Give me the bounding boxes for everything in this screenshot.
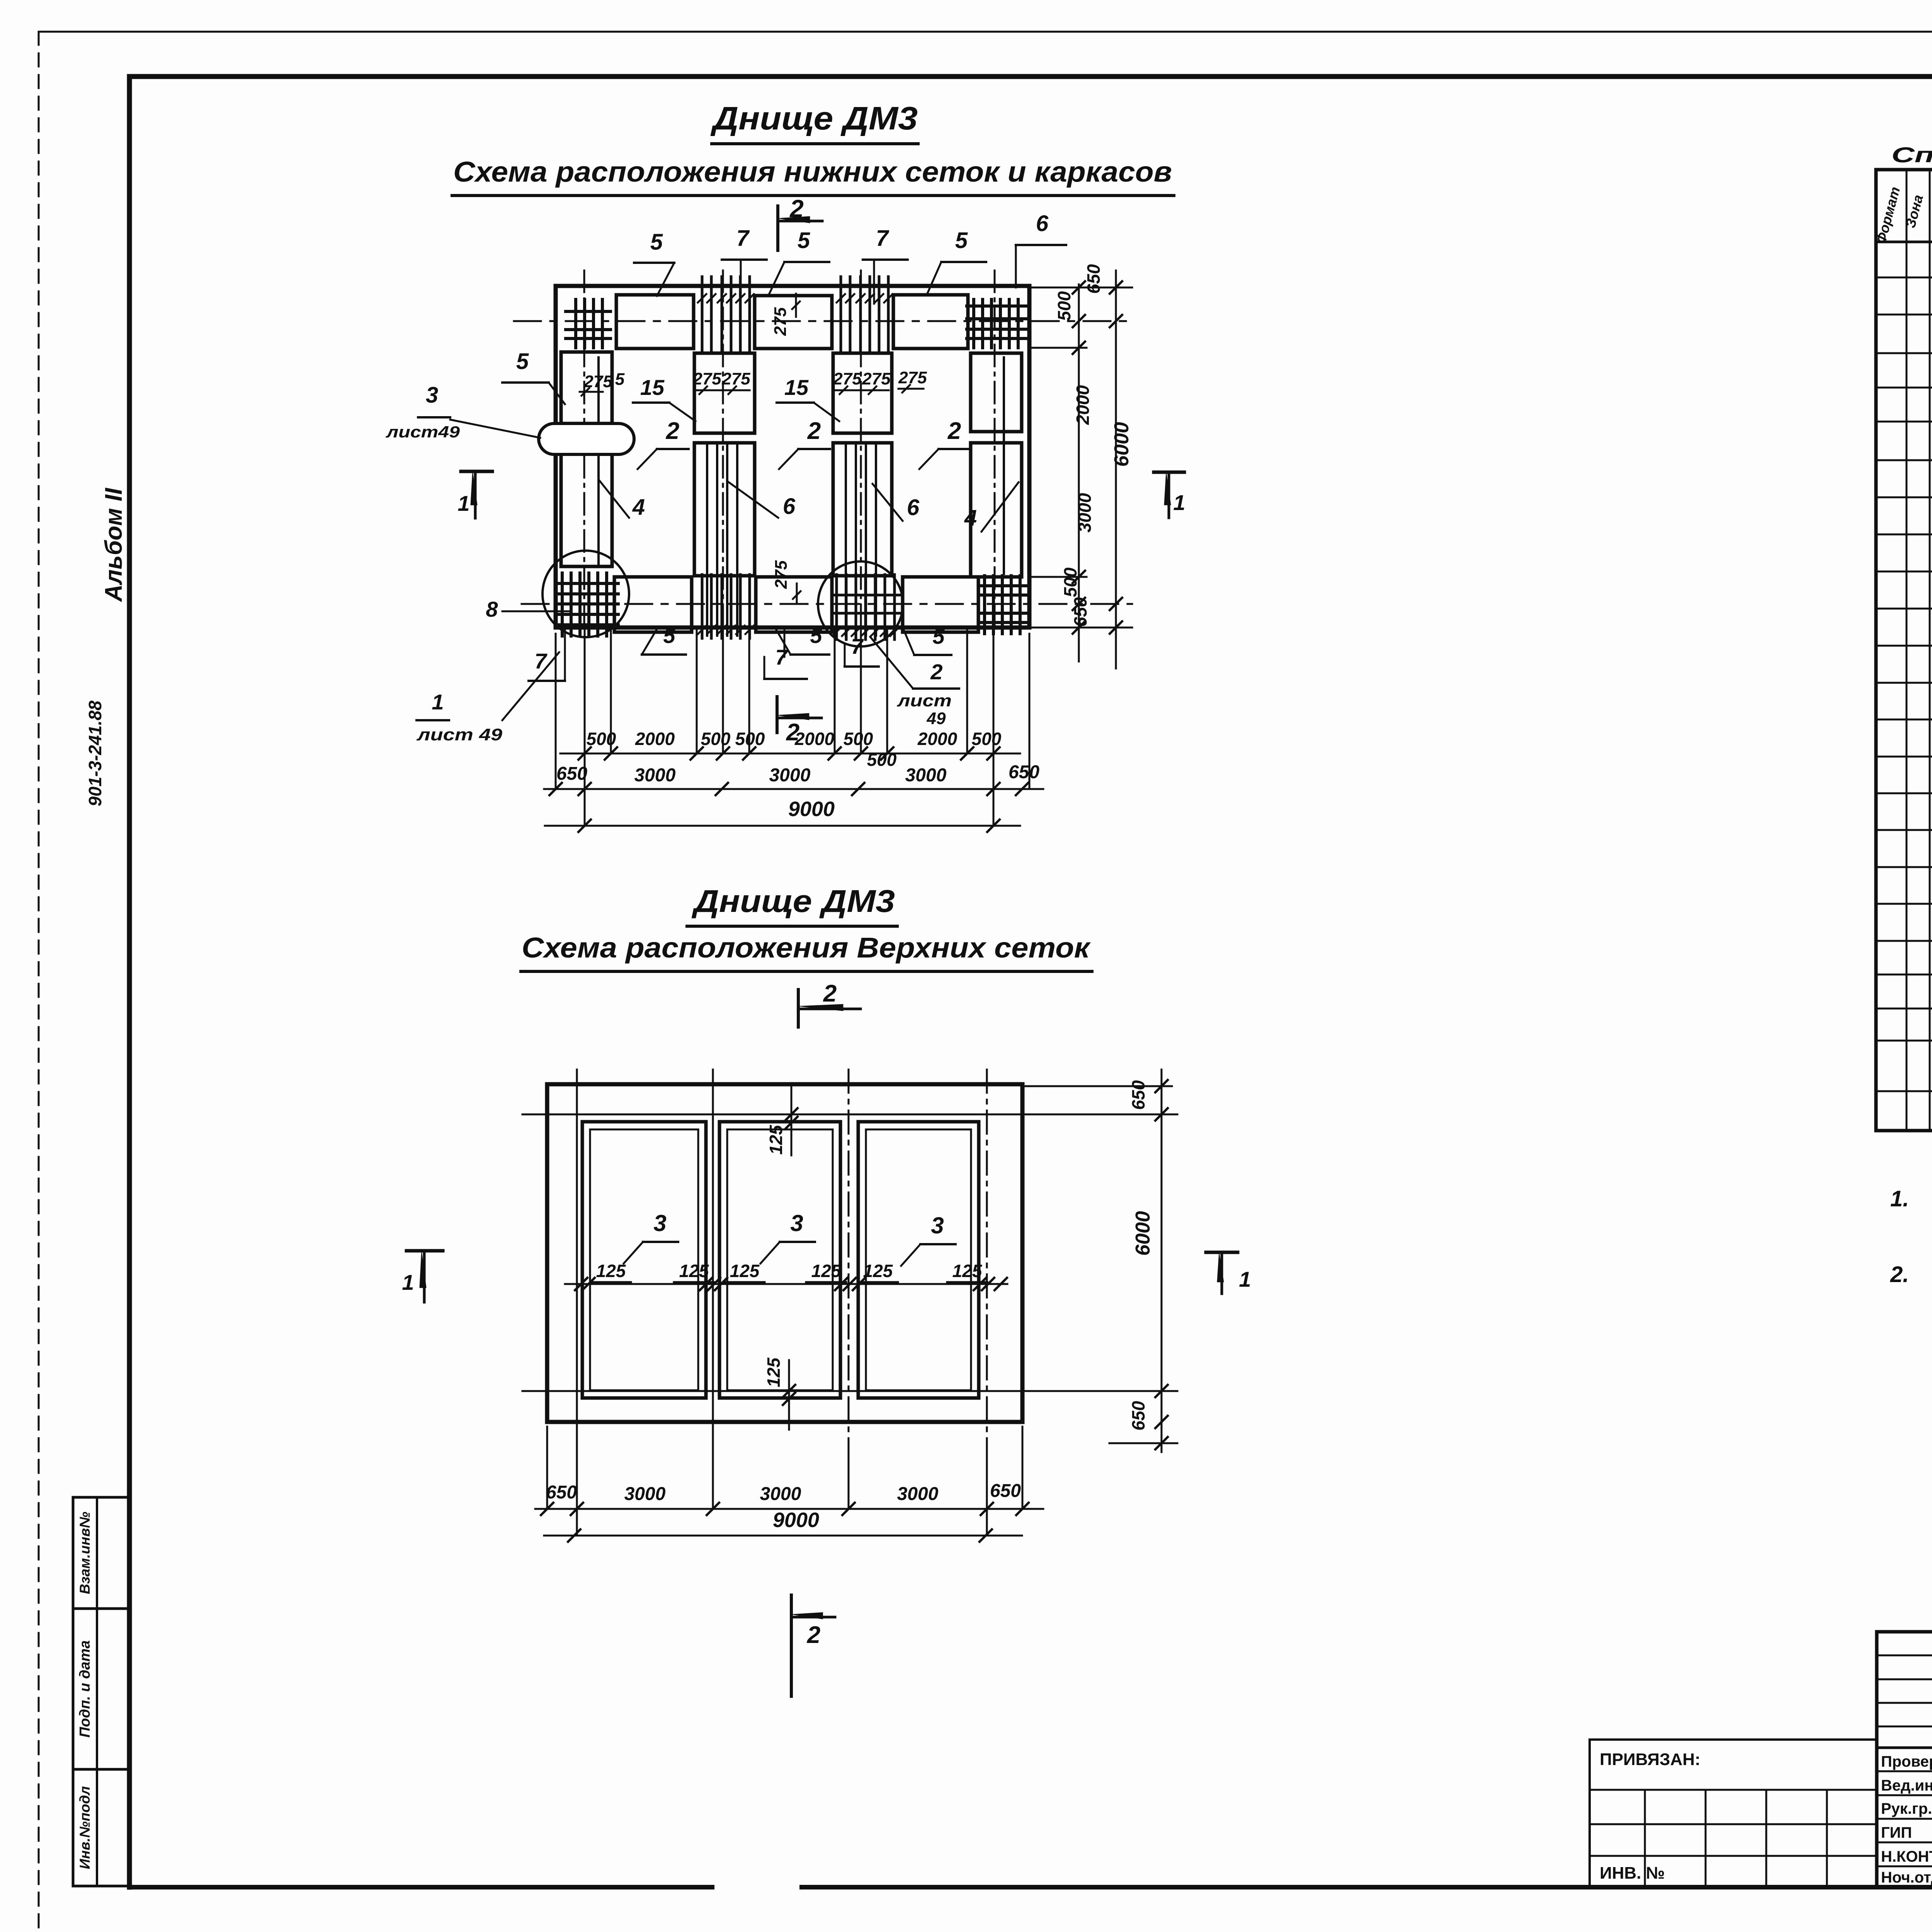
label 5 bottom-3 [903, 624, 951, 655]
dim row 650-3000 (lower plan) [535, 1481, 1043, 1515]
svg-text:2: 2 [947, 418, 961, 444]
svg-text:3: 3 [790, 1210, 803, 1236]
lower drawing title [687, 884, 897, 926]
svg-text:7: 7 [534, 649, 548, 673]
svg-text:500: 500 [1060, 567, 1080, 597]
svg-text:650: 650 [1083, 264, 1104, 294]
svg-text:5: 5 [615, 370, 625, 389]
svg-text:500: 500 [867, 750, 897, 770]
svg-text:6000: 6000 [1111, 422, 1133, 467]
mesh hatch bottom-right [980, 576, 1029, 634]
label 7 bottom-2 [764, 629, 807, 679]
label 5 bottom-1 [642, 623, 686, 655]
label 2 list 49 bottom [870, 637, 959, 728]
embedded plate 5 bottom-1 [614, 577, 692, 632]
detail circle 2 [818, 561, 903, 646]
label 6 strip2 [729, 482, 796, 519]
spec table frame [1876, 170, 1932, 1131]
section mark 1 left (upper plan) [457, 471, 492, 518]
svg-text:3000: 3000 [760, 1484, 801, 1504]
label 3 window2 [760, 1210, 815, 1264]
svg-text:2.: 2. [1890, 1262, 1909, 1287]
section mark 2 top (upper plan) [778, 195, 822, 250]
title block signature grid [1877, 1632, 1932, 1887]
label 2 slab-3 [919, 418, 970, 469]
label 6 top-right [1016, 211, 1066, 287]
strip inner bars 3 [846, 444, 876, 636]
svg-text:650: 650 [1070, 597, 1090, 627]
svg-text:1: 1 [1239, 1267, 1251, 1291]
svg-text:500: 500 [587, 729, 616, 749]
svg-text:Альбом II: Альбом II [100, 487, 127, 602]
dim 275 strip1 [580, 370, 625, 396]
dim row 9000 (upper plan) [545, 798, 1020, 832]
left margin stamp boxes [73, 1497, 130, 1886]
carcass strip 2 [694, 353, 755, 576]
svg-text:Спецификация к монолитном: Спецификация к монолитному днищу ДМ3 [1891, 143, 1932, 167]
svg-text:Подп. и дата: Подп. и дата [77, 1640, 93, 1738]
svg-text:7: 7 [851, 634, 864, 658]
svg-text:3: 3 [931, 1213, 944, 1238]
svg-text:500: 500 [701, 729, 731, 749]
svg-text:275: 275 [898, 368, 927, 387]
lower drawing subtitle [521, 932, 1092, 971]
section mark 2 bottom (upper plan) [777, 697, 821, 746]
right overall dim line 6000 (upper plan) [1110, 270, 1122, 668]
title block main frame [1877, 1632, 1932, 1887]
svg-text:3000: 3000 [624, 1484, 666, 1504]
svg-text:49: 49 [927, 709, 946, 728]
svg-text:6000: 6000 [1132, 1211, 1154, 1256]
spec table header texts [1873, 185, 1932, 245]
attachment box privyazan [1590, 1740, 1877, 1887]
upper mesh window 3 [858, 1122, 979, 1398]
svg-text:2: 2 [786, 719, 799, 746]
svg-text:500: 500 [844, 729, 873, 749]
svg-text:5: 5 [650, 230, 663, 255]
label 7 top-1 [722, 226, 767, 305]
label 7 bottom-3 [845, 634, 879, 667]
right dim extension lines (upper plan) [1029, 287, 1132, 628]
svg-text:ГИП: ГИП [1881, 1824, 1912, 1841]
bar hatch top-mid-1 [698, 277, 754, 352]
mesh hatch bottom-left [556, 573, 618, 636]
label 5 bottom-2 [776, 623, 829, 655]
svg-text:2: 2 [666, 418, 679, 444]
svg-text:6: 6 [783, 494, 796, 519]
svg-text:650: 650 [1009, 762, 1039, 782]
carcass strip 1 [561, 352, 612, 566]
svg-text:Провер.: Провер. [1881, 1753, 1932, 1770]
svg-text:2: 2 [807, 1622, 820, 1648]
upper mesh window 2 [719, 1122, 840, 1398]
svg-text:лист 49: лист 49 [417, 725, 503, 744]
upper plan top axis line [514, 320, 1132, 322]
svg-text:3000: 3000 [905, 765, 947, 786]
svg-text:125: 125 [730, 1261, 760, 1281]
bar hatch top-mid-2 [837, 277, 893, 352]
svg-text:5: 5 [932, 624, 945, 648]
svg-text:275: 275 [771, 307, 790, 336]
svg-text:5: 5 [516, 349, 529, 374]
dim 275 strip3 pair [833, 369, 891, 394]
title block signatures texts [1881, 1753, 1932, 1886]
svg-text:лист: лист [897, 691, 952, 710]
right dim chain line (upper plan) [1073, 281, 1085, 662]
svg-text:ПРИВЯЗАН:: ПРИВЯЗАН: [1600, 1750, 1701, 1769]
upper mesh window 1 [582, 1122, 706, 1398]
svg-text:650: 650 [556, 764, 587, 784]
svg-text:Схема расположения нижних сето: Схема расположения нижних сеток и каркас… [453, 156, 1172, 188]
svg-text:125: 125 [596, 1261, 626, 1281]
svg-text:15: 15 [640, 375, 665, 400]
label 5 top-1 [634, 230, 674, 296]
dim 125 vertical top (lower plan) [766, 1087, 798, 1155]
svg-text:500: 500 [1054, 291, 1074, 321]
embedded plate 5 top-3 [893, 295, 968, 349]
svg-text:4: 4 [964, 505, 977, 531]
svg-text:8: 8 [486, 597, 498, 621]
lower plan grid verticals [577, 1070, 987, 1451]
svg-text:650: 650 [990, 1481, 1021, 1501]
right dim extension lines (lower plan) [1022, 1086, 1177, 1443]
label 7 bottom-1 [529, 629, 565, 681]
lower plan band line top [522, 1114, 1177, 1116]
label 8 left [486, 597, 569, 621]
section mark 1 right (lower plan) [1206, 1252, 1251, 1294]
svg-text:2000: 2000 [1073, 385, 1093, 425]
svg-text:3: 3 [426, 383, 438, 408]
label 3 window3 [901, 1213, 956, 1266]
dim row 500-2000-500 (upper plan) [560, 729, 1020, 770]
upper plan outline [556, 286, 1029, 628]
svg-text:Инв.№подл: Инв.№подл [77, 1786, 93, 1869]
label 2 slab-1 [638, 418, 689, 469]
spec table column lines [1906, 170, 1932, 1131]
svg-text:3: 3 [653, 1210, 666, 1236]
label 15 no2 [777, 375, 839, 421]
svg-text:5: 5 [663, 623, 675, 648]
dim 125 vertical bottom (lower plan) [764, 1357, 795, 1430]
svg-text:15: 15 [784, 375, 809, 400]
svg-text:1.: 1. [1890, 1186, 1909, 1211]
svg-text:Ноч.отд: Ноч.отд [1881, 1869, 1932, 1886]
svg-text:650: 650 [546, 1482, 577, 1503]
carcass strip 4 [971, 353, 1022, 577]
embedded plate 5 bottom-3 [903, 577, 978, 632]
svg-text:125: 125 [863, 1261, 893, 1281]
embedded plate 5 top-2 [755, 296, 832, 349]
svg-text:5: 5 [798, 228, 810, 253]
embedded plate 5 top-1 [616, 295, 694, 349]
svg-text:2: 2 [807, 418, 821, 444]
svg-text:3000: 3000 [897, 1484, 939, 1504]
svg-text:125: 125 [766, 1124, 786, 1155]
lower plan band line bottom [522, 1390, 1177, 1392]
carcass strip 3 [833, 353, 892, 576]
svg-text:9000: 9000 [788, 798, 835, 821]
label 6 strip3 [872, 484, 920, 521]
svg-text:6: 6 [907, 495, 920, 520]
label 2 slab-2 [779, 418, 830, 469]
label 7 top-2 [863, 226, 908, 304]
strip axis lines [584, 270, 995, 630]
bar hatch bottom-mid-2 [832, 575, 900, 639]
svg-text:Взам.инв№: Взам.инв№ [77, 1512, 93, 1594]
label 3 window1 [624, 1210, 678, 1264]
lower plan outline [547, 1084, 1022, 1422]
svg-text:лист49: лист49 [386, 423, 460, 441]
right dim chain (lower plan) [1155, 1070, 1168, 1452]
label 4 strip1 [599, 480, 645, 520]
svg-text:125: 125 [952, 1261, 983, 1281]
label 5 left [502, 349, 565, 404]
strip inner bars 2 [707, 444, 737, 636]
label 1 list 49 [417, 652, 559, 744]
upper plan bottom axis line [522, 603, 1132, 605]
svg-text:3000: 3000 [769, 765, 811, 786]
svg-text:2000: 2000 [794, 729, 835, 749]
svg-text:2: 2 [823, 980, 837, 1007]
svg-text:500: 500 [972, 729, 1002, 749]
pipe sleeve capsule [539, 423, 634, 454]
svg-text:5: 5 [955, 228, 968, 253]
upper drawing subtitle [452, 156, 1174, 196]
bottom dim extension lines (lower plan) [547, 1427, 1022, 1536]
dim row 125 (lower plan) [565, 1261, 1007, 1290]
svg-text:7: 7 [736, 226, 750, 251]
svg-text:5: 5 [810, 623, 822, 648]
strip inner bars 1 and 4 [599, 357, 1004, 574]
svg-text:125: 125 [811, 1261, 842, 1281]
svg-text:3000: 3000 [634, 765, 676, 786]
svg-text:2000: 2000 [635, 729, 675, 749]
svg-text:7: 7 [876, 226, 889, 251]
dim row 650-3000 (upper plan) [544, 762, 1043, 795]
dim 275 vertical bottom [772, 560, 801, 603]
mesh hatch top-right [967, 299, 1028, 348]
dim row 9000 (lower plan) [544, 1509, 1022, 1542]
svg-text:9000: 9000 [773, 1509, 819, 1532]
section mark 1 left (lower plan) [402, 1251, 443, 1302]
svg-text:Схема расположения Верхних се: Схема расположения Верхних сеток [522, 932, 1091, 964]
dim 275 strip4 [898, 368, 927, 393]
svg-text:4: 4 [632, 495, 645, 520]
upper drawing title [710, 100, 918, 144]
dim 275 vertical top [771, 294, 800, 336]
svg-text:Рук.гр.: Рук.гр. [1881, 1800, 1932, 1817]
label 15 no1 [633, 375, 696, 421]
label 5 top-3 [927, 228, 986, 295]
section mark 2 bottom (lower plan) [791, 1595, 835, 1696]
svg-text:650: 650 [1128, 1401, 1148, 1430]
svg-text:2: 2 [789, 195, 804, 223]
section mark 1 right (upper plan) [1154, 472, 1185, 518]
svg-text:Н.КОНТР: Н.КОНТР [1881, 1848, 1932, 1865]
mesh hatch top-left [566, 299, 611, 348]
label 3 list 49 [386, 383, 540, 441]
svg-text:275: 275 [772, 560, 791, 589]
dim 275 strip2 pair [692, 369, 750, 394]
label 4 strip4 [964, 482, 1019, 532]
spec table row lines [1876, 277, 1932, 1091]
detail circle 1 [543, 551, 629, 637]
svg-text:650: 650 [1128, 1080, 1148, 1110]
embedded plate 5 bottom-2 [756, 577, 832, 632]
section mark 2 top (lower plan) [798, 980, 861, 1027]
svg-text:1: 1 [432, 690, 444, 714]
svg-text:2: 2 [930, 660, 942, 684]
bottom dim extension lines (upper plan) [556, 629, 1029, 826]
svg-text:1: 1 [457, 491, 469, 515]
svg-text:1: 1 [402, 1270, 414, 1294]
svg-text:3000: 3000 [1075, 493, 1095, 532]
bar hatch bottom-mid-1 [698, 575, 754, 638]
svg-text:125: 125 [764, 1357, 784, 1387]
label 5 top-2 [769, 228, 829, 294]
svg-text:125: 125 [679, 1261, 709, 1281]
svg-text:901-3-241.88: 901-3-241.88 [85, 701, 105, 806]
svg-text:6: 6 [1036, 211, 1049, 236]
svg-text:Днище ДМ3: Днище ДМ3 [691, 884, 895, 919]
svg-text:1: 1 [1173, 490, 1185, 515]
svg-text:500: 500 [735, 729, 765, 749]
note 2 [1890, 1262, 1932, 1287]
svg-text:Днище ДМ3: Днище ДМ3 [710, 100, 918, 136]
svg-text:Вед.инж: Вед.инж [1881, 1777, 1932, 1794]
svg-text:2000: 2000 [917, 729, 957, 749]
svg-text:ИНВ. №: ИНВ. № [1600, 1864, 1665, 1883]
